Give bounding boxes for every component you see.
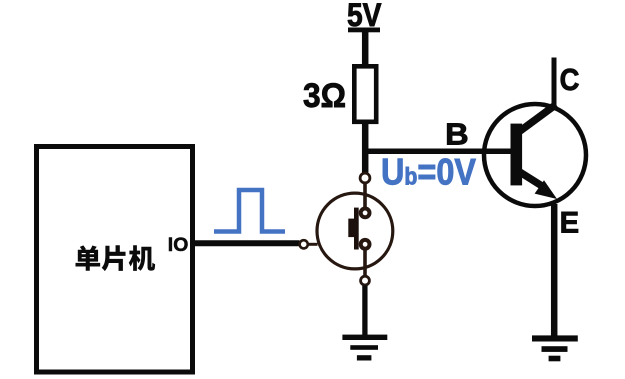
- svg-text:C: C: [560, 62, 580, 97]
- svg-text:3Ω: 3Ω: [303, 77, 346, 115]
- svg-text:B: B: [445, 117, 469, 152]
- svg-text:IO: IO: [168, 234, 189, 256]
- svg-text:E: E: [560, 207, 580, 240]
- svg-text:Ub=0V: Ub=0V: [381, 152, 476, 193]
